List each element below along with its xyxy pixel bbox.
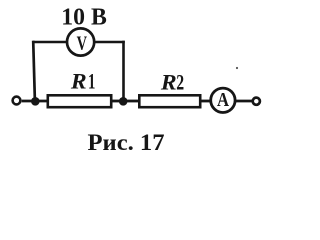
svg-text:V: V bbox=[77, 32, 88, 54]
wire (left terminal to R1) bbox=[22, 100, 48, 103]
wire (left vertical branch to voltmeter) bbox=[33, 41, 35, 101]
ammeter U2 (A) bbox=[211, 88, 235, 112]
svg-text:Рис. 17: Рис. 17 bbox=[88, 130, 165, 156]
node 1 (junction of voltmeter branch, left) bbox=[31, 97, 40, 106]
wire (right vertical branch of voltmeter) bbox=[122, 41, 125, 101]
scan speckle bbox=[236, 67, 238, 69]
svg-text:1: 1 bbox=[88, 68, 95, 93]
resistor R2 bbox=[139, 69, 200, 107]
terminal (right output) bbox=[253, 98, 260, 105]
wire (top right horizontal from voltmeter) bbox=[94, 41, 124, 44]
wire (R1 to node 2) bbox=[111, 100, 127, 103]
svg-text:R: R bbox=[160, 69, 177, 94]
svg-text:A: A bbox=[217, 90, 229, 111]
terminal (left input) bbox=[13, 97, 21, 105]
voltmeter U1 (V) bbox=[67, 28, 94, 55]
svg-text:2: 2 bbox=[176, 69, 184, 94]
node 2 (junction of voltmeter branch, right) bbox=[119, 97, 128, 106]
wire (top left horizontal to voltmeter) bbox=[33, 41, 67, 44]
wire (node 2 to R2) bbox=[127, 100, 140, 103]
wire (ammeter to right terminal) bbox=[236, 100, 253, 103]
svg-text:R: R bbox=[70, 68, 87, 93]
resistor R1 bbox=[48, 68, 111, 107]
wire (R2 to ammeter) bbox=[200, 100, 212, 103]
svg-text:10 В: 10 В bbox=[61, 4, 107, 30]
